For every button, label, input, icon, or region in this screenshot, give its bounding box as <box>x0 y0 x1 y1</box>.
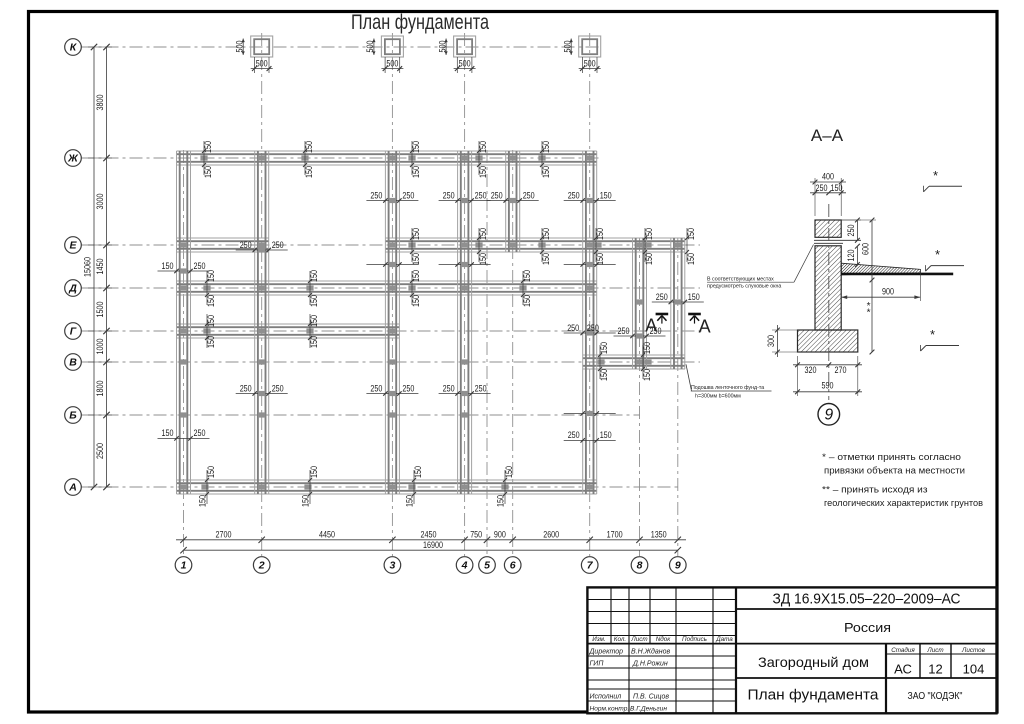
dim 400 section <box>810 172 846 217</box>
svg-text:150: 150 <box>404 495 414 507</box>
svg-text:150: 150 <box>304 141 314 153</box>
wire wall col 7 <box>583 151 597 494</box>
svg-text:А: А <box>699 317 711 337</box>
capacitor pad col 7 row К <box>562 36 600 73</box>
wire wall row А <box>177 480 597 494</box>
svg-text:1500: 1500 <box>95 302 105 318</box>
wire axis col 4 <box>464 33 466 556</box>
svg-text:250: 250 <box>846 225 856 237</box>
svg-text:1450: 1450 <box>95 259 105 275</box>
svg-text:150: 150 <box>644 253 654 265</box>
dim tick at col7 row Б <box>564 411 616 416</box>
svg-text:900: 900 <box>882 287 894 297</box>
svg-text:3: 3 <box>389 560 395 572</box>
wire axis row Е <box>82 244 701 246</box>
svg-text:150: 150 <box>309 466 319 478</box>
svg-text:Директор: Директор <box>589 648 624 655</box>
wire axis col 6 <box>512 150 514 556</box>
svg-text:600: 600 <box>860 243 870 255</box>
svg-text:400: 400 <box>822 172 834 182</box>
svg-text:Россия: Россия <box>844 620 891 635</box>
svg-text:150: 150 <box>599 369 609 381</box>
svg-text:h=300мм b=600мм: h=300мм b=600мм <box>695 394 741 400</box>
dim 250/250 at col2 row Е <box>236 240 288 253</box>
ground elevation mark bottom <box>921 327 960 351</box>
svg-text:В: В <box>69 357 77 369</box>
svg-text:250: 250 <box>240 240 252 250</box>
dim ** section <box>867 280 875 354</box>
svg-text:250: 250 <box>240 383 252 393</box>
svg-text:16900: 16900 <box>423 540 443 550</box>
svg-text:Исполнил: Исполнил <box>590 693 622 700</box>
extension ticks at left chains <box>88 47 112 487</box>
svg-text:150: 150 <box>541 166 551 178</box>
svg-text:1800: 1800 <box>95 381 105 397</box>
svg-text:150: 150 <box>309 295 319 307</box>
svg-text:150: 150 <box>541 253 551 265</box>
svg-text:150: 150 <box>504 466 514 478</box>
svg-text:900: 900 <box>494 530 506 540</box>
wire axis row К <box>82 46 601 48</box>
node row label В <box>65 354 82 371</box>
svg-text:В.Г.Деньгин: В.Г.Деньгин <box>630 706 667 713</box>
dim 250/150 at col7 y200 <box>564 190 616 203</box>
capacitor section top block <box>815 220 841 237</box>
transistor section stem <box>815 246 841 330</box>
svg-text:ЗД 16.9Х15.05–220–2009–АС: ЗД 16.9Х15.05–220–2009–АС <box>773 591 961 608</box>
svg-text:Г: Г <box>70 326 77 338</box>
node row label Ж <box>65 150 82 167</box>
svg-text:2600: 2600 <box>543 530 559 540</box>
node column label 4 <box>456 557 473 574</box>
svg-text:150: 150 <box>411 295 421 307</box>
node row label Г <box>65 323 82 340</box>
svg-text:3800: 3800 <box>95 95 105 111</box>
dim 250 150 section top <box>810 183 846 195</box>
svg-text:Б: Б <box>69 410 77 422</box>
dim 250/250 at col2 y393 <box>236 383 288 396</box>
svg-text:500: 500 <box>256 59 268 69</box>
dim 150/250 at col1 row Б <box>158 428 210 440</box>
svg-text:А: А <box>68 482 77 494</box>
leader слуховые окна <box>707 245 814 290</box>
svg-text:250: 250 <box>443 383 455 393</box>
svg-text:150: 150 <box>411 141 421 153</box>
svg-text:150: 150 <box>206 336 216 348</box>
svg-text:150: 150 <box>411 270 421 282</box>
svg-text:15060: 15060 <box>82 257 92 277</box>
wire wall row Г cols1-3 <box>177 324 400 338</box>
svg-text:150: 150 <box>304 166 314 178</box>
dim 600 section right <box>841 218 876 283</box>
svg-text:150: 150 <box>206 466 216 478</box>
svg-text:В.Н.Жданов: В.Н.Жданов <box>631 647 671 655</box>
svg-text:Д.Н.Рожин: Д.Н.Рожин <box>632 660 668 667</box>
svg-text:*: * <box>930 327 935 342</box>
ground elevation mark top <box>924 168 963 192</box>
svg-text:Загородный дом: Загородный дом <box>758 654 869 670</box>
svg-text:1: 1 <box>181 560 187 572</box>
svg-text:150: 150 <box>522 295 532 307</box>
svg-text:150: 150 <box>522 270 532 282</box>
svg-text:* – отметки принять согласно: * – отметки принять согласно <box>822 452 961 463</box>
capacitor pad col 3 row К <box>365 36 403 73</box>
svg-text:500: 500 <box>386 59 398 69</box>
node column label 5 <box>479 557 496 574</box>
node column label 2 <box>253 557 270 574</box>
svg-text:150: 150 <box>541 228 551 240</box>
dim tick at col4 y264 <box>439 262 491 267</box>
dim 250/250 at col3 y200 <box>366 190 418 203</box>
wire axis col 8 <box>639 238 641 556</box>
svg-text:250: 250 <box>370 383 382 393</box>
svg-text:150: 150 <box>642 342 652 354</box>
node column label 8 <box>631 557 648 574</box>
wire wall col 4 <box>458 151 472 494</box>
svg-text:500: 500 <box>365 41 375 53</box>
svg-text:6: 6 <box>510 560 516 572</box>
svg-text:250: 250 <box>568 430 580 440</box>
svg-text:250: 250 <box>567 323 579 333</box>
svg-text:150: 150 <box>595 253 605 265</box>
svg-text:Стадия: Стадия <box>891 646 915 654</box>
svg-text:9: 9 <box>824 407 833 424</box>
svg-text:104: 104 <box>963 662 985 677</box>
svg-text:привязки объекта на местности: привязки объекта на местности <box>824 465 965 476</box>
wire wall row В cols7-9 <box>583 355 685 369</box>
svg-text:150: 150 <box>411 228 421 240</box>
svg-text:150: 150 <box>309 315 319 327</box>
dim 250/250 at col3 y393 <box>366 383 418 396</box>
svg-text:Дата: Дата <box>715 636 733 643</box>
svg-text:А: А <box>645 316 657 336</box>
svg-text:250: 250 <box>656 292 668 302</box>
dim 320 270 section bottom <box>793 362 862 374</box>
svg-text:Лист: Лист <box>630 636 647 643</box>
svg-text:250: 250 <box>618 326 630 336</box>
svg-text:150: 150 <box>600 430 612 440</box>
dim 250/250 at col8 y336 <box>614 326 666 339</box>
svg-text:*: * <box>935 247 940 262</box>
wire axis row Д <box>82 287 701 289</box>
wire wall row Е cols3-9 <box>385 238 685 252</box>
dim 590 section bottom <box>793 356 862 396</box>
svg-text:Подпись: Подпись <box>682 635 707 643</box>
wire axis col 2 <box>261 33 263 556</box>
svg-text:150: 150 <box>478 228 488 240</box>
svg-text:250: 250 <box>443 190 455 200</box>
capacitor pad col 2 row К <box>234 36 272 73</box>
wire wall col 1 <box>177 151 191 494</box>
svg-text:*: * <box>867 308 871 319</box>
wire wall row Ж <box>177 151 597 165</box>
svg-text:150: 150 <box>495 495 505 507</box>
svg-text:500: 500 <box>584 59 596 69</box>
svg-text:Подошва ленточного фунд-та: Подошва ленточного фунд-та <box>691 385 764 391</box>
svg-text:250: 250 <box>816 183 828 193</box>
svg-text:250: 250 <box>272 383 284 393</box>
node row label Е <box>65 237 82 254</box>
wire axis col 1 <box>183 150 185 556</box>
left dimension chain segments <box>106 47 108 487</box>
svg-text:500: 500 <box>562 41 572 53</box>
wire axis col 3 <box>391 33 393 556</box>
svg-text:250: 250 <box>587 323 599 333</box>
svg-text:4: 4 <box>461 560 468 572</box>
svg-text:12: 12 <box>928 662 942 677</box>
dim 150/250 at col1 y271 <box>158 261 210 274</box>
wire wall col 3 <box>385 151 399 494</box>
node row label Б <box>65 407 82 424</box>
svg-text:2: 2 <box>258 560 265 572</box>
svg-text:План фундамента: План фундамента <box>748 687 880 704</box>
svg-text:4450: 4450 <box>319 530 335 540</box>
svg-text:Е: Е <box>69 240 77 252</box>
svg-text:2500: 2500 <box>95 443 105 459</box>
title block table <box>587 587 996 713</box>
svg-text:150: 150 <box>309 336 319 348</box>
rotated 150 dimension labels with tick leaders <box>197 141 696 507</box>
svg-text:Лист: Лист <box>926 647 943 654</box>
svg-text:150: 150 <box>411 166 421 178</box>
node circled 9 under section <box>818 404 840 426</box>
ground elevation mark middle <box>926 247 965 271</box>
svg-text:9: 9 <box>675 560 681 572</box>
svg-text:150: 150 <box>203 166 213 178</box>
svg-text:150: 150 <box>309 270 319 282</box>
wire axis row Г <box>82 330 705 332</box>
svg-text:150: 150 <box>478 166 488 178</box>
dim 250/150 at col9 y302 <box>652 292 704 305</box>
dim tick at col7 y264 <box>564 262 616 267</box>
wire section centerline <box>828 204 830 400</box>
svg-text:ЗАО "КОДЭК": ЗАО "КОДЭК" <box>908 690 963 702</box>
dim 250/250 at col6 y200 <box>487 190 539 203</box>
svg-text:250: 250 <box>491 190 503 200</box>
title block texts <box>589 591 986 713</box>
svg-text:8: 8 <box>637 560 643 572</box>
svg-text:150: 150 <box>478 141 488 153</box>
svg-text:300: 300 <box>766 335 776 347</box>
svg-text:150: 150 <box>642 369 652 381</box>
capacitor pad col 4 row К <box>437 36 475 73</box>
svg-text:150: 150 <box>541 141 551 153</box>
section cut marks А in plan <box>645 314 710 337</box>
wire wall col 9 <box>671 238 685 369</box>
svg-text:150: 150 <box>206 270 216 282</box>
svg-text:150: 150 <box>599 342 609 354</box>
svg-text:1000: 1000 <box>95 339 105 355</box>
bottom dimension chain total 16900 <box>180 540 681 553</box>
svg-text:150: 150 <box>300 495 310 507</box>
svg-text:750: 750 <box>470 530 482 540</box>
svg-text:150: 150 <box>600 190 612 200</box>
svg-text:План фундамента: План фундамента <box>351 10 489 34</box>
svg-text:150: 150 <box>688 292 700 302</box>
svg-text:150: 150 <box>478 253 488 265</box>
dim 250/150 at col7 y440 <box>564 430 616 442</box>
svg-text:*: * <box>933 168 938 183</box>
svg-text:250: 250 <box>402 383 414 393</box>
svg-text:2450: 2450 <box>421 530 437 540</box>
svg-text:150: 150 <box>686 253 696 265</box>
wire wall row Д <box>177 281 597 295</box>
svg-text:А–А: А–А <box>811 126 844 145</box>
wire axis row Ж <box>82 157 601 159</box>
svg-text:геологических характеристик гр: геологических характеристик грунтов <box>824 498 983 509</box>
svg-text:270: 270 <box>835 365 847 375</box>
dim 120 section right <box>846 244 860 267</box>
svg-text:Листов: Листов <box>961 647 986 654</box>
resistor section footing <box>798 330 858 352</box>
dim tick at col3 y264 <box>366 262 418 267</box>
svg-text:250: 250 <box>194 261 206 271</box>
wire axis col 7 <box>589 33 591 556</box>
svg-text:Норм.контр.: Норм.контр. <box>590 706 630 713</box>
svg-text:** – принять исходя из: ** – принять исходя из <box>822 485 928 496</box>
svg-text:150: 150 <box>206 295 216 307</box>
svg-text:250: 250 <box>402 190 414 200</box>
svg-text:250: 250 <box>475 383 487 393</box>
svg-text:590: 590 <box>822 381 834 391</box>
wire wall col 2 <box>255 151 269 494</box>
node notes text <box>822 452 983 509</box>
svg-text:250: 250 <box>272 240 284 250</box>
dim 250/250 at col4 row y200 <box>439 190 491 203</box>
svg-text:150: 150 <box>595 228 605 240</box>
svg-text:Изм.: Изм. <box>592 636 605 643</box>
svg-text:предусмотреть слуховые окна: предусмотреть слуховые окна <box>707 284 781 290</box>
node junction blobs <box>180 155 682 489</box>
wire wall row Е cols1-2 <box>177 238 269 252</box>
node column label 7 <box>581 557 598 574</box>
svg-text:1350: 1350 <box>651 530 667 540</box>
svg-text:500: 500 <box>437 41 447 53</box>
svg-text:500: 500 <box>459 59 471 69</box>
svg-text:П.В. Сицов: П.В. Сицов <box>633 693 669 700</box>
left dimension chain total 15060 <box>82 44 97 490</box>
svg-text:150: 150 <box>206 315 216 327</box>
wire axis row А <box>82 486 681 488</box>
node row label Д <box>65 280 82 297</box>
svg-text:150: 150 <box>411 253 421 265</box>
node column label 6 <box>504 557 521 574</box>
node column label 3 <box>384 557 401 574</box>
dim 250/250 at col7 row Г <box>564 323 616 336</box>
svg-text:150: 150 <box>831 183 843 193</box>
svg-text:150: 150 <box>162 428 174 438</box>
svg-text:5: 5 <box>484 560 490 572</box>
node column label 9 <box>670 557 687 574</box>
dim 250/250 at col4 y393 <box>439 383 491 396</box>
dim 900 section <box>841 271 920 301</box>
svg-text:250: 250 <box>370 190 382 200</box>
wire wall col 6 <box>506 151 520 252</box>
svg-text:120: 120 <box>846 250 856 262</box>
leader Подошва ленточного фунд-та <box>686 364 772 399</box>
svg-text:2700: 2700 <box>216 530 232 540</box>
svg-text:Nдок: Nдок <box>656 635 672 643</box>
svg-text:500: 500 <box>234 41 244 53</box>
svg-text:150: 150 <box>686 228 696 240</box>
diode floor wedge <box>841 263 953 275</box>
wire axis row В <box>82 361 701 363</box>
svg-text:150: 150 <box>203 141 213 153</box>
svg-text:320: 320 <box>805 365 817 375</box>
svg-text:250: 250 <box>194 428 206 438</box>
node column label 1 <box>175 557 192 574</box>
svg-text:250: 250 <box>568 190 580 200</box>
svg-text:250: 250 <box>523 190 535 200</box>
wire wall col 8 <box>633 238 647 369</box>
wire axis col 5 <box>486 150 488 556</box>
svg-text:150: 150 <box>162 261 174 271</box>
svg-text:150: 150 <box>644 228 654 240</box>
node row label К <box>65 39 82 56</box>
node row label А <box>65 479 82 496</box>
svg-text:В соответствующих местах: В соответствующих местах <box>707 277 774 283</box>
dim 300 section left <box>766 325 798 357</box>
svg-text:Кол.: Кол. <box>614 636 626 643</box>
wire axis col 9 <box>677 238 679 556</box>
svg-text:150: 150 <box>413 466 423 478</box>
svg-text:3000: 3000 <box>95 194 105 210</box>
svg-text:ГИП: ГИП <box>590 660 605 667</box>
svg-text:150: 150 <box>197 495 207 507</box>
svg-text:1700: 1700 <box>607 530 623 540</box>
wire axis row Б <box>82 414 641 416</box>
svg-text:250: 250 <box>475 190 487 200</box>
svg-text:Ж: Ж <box>67 153 79 165</box>
svg-text:Д: Д <box>68 283 77 295</box>
wire section window gap lines <box>814 240 861 243</box>
bottom dimension chain segments <box>176 530 686 543</box>
dim 250 section right <box>841 218 861 243</box>
svg-text:АС: АС <box>894 662 912 677</box>
